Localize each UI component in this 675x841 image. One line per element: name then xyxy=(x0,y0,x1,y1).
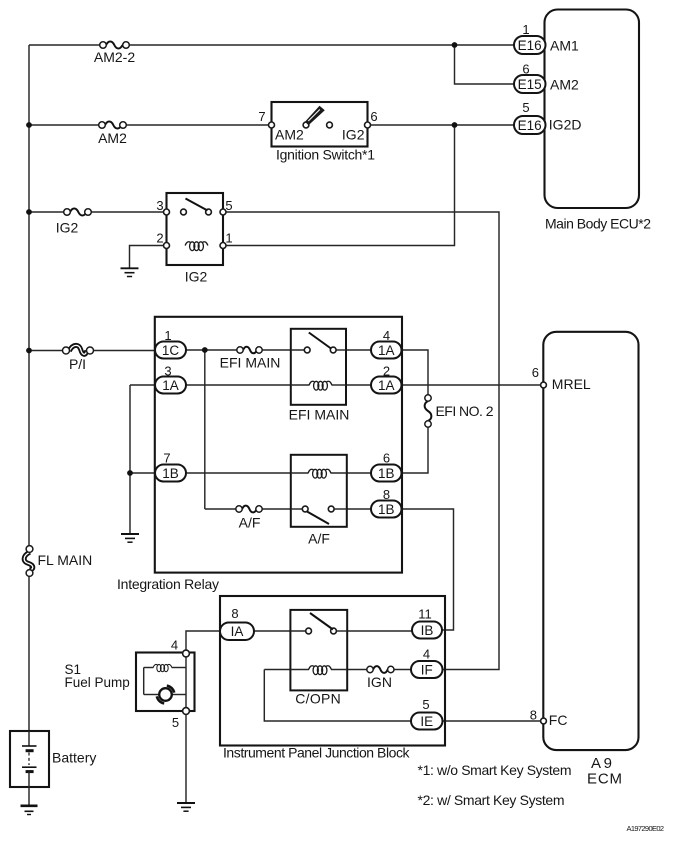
svg-text:1B: 1B xyxy=(162,466,179,481)
svg-text:5: 5 xyxy=(172,715,179,730)
svg-text:IG2: IG2 xyxy=(342,127,365,143)
svg-text:Ignition Switch*1: Ignition Switch*1 xyxy=(276,147,375,163)
svg-text:AM2: AM2 xyxy=(275,127,304,143)
svg-text:Main Body ECU*2: Main Body ECU*2 xyxy=(545,216,651,232)
svg-text:2: 2 xyxy=(156,231,163,246)
svg-text:1: 1 xyxy=(164,328,171,343)
svg-text:3: 3 xyxy=(164,364,171,379)
svg-text:P/I: P/I xyxy=(69,356,86,372)
svg-text:1B: 1B xyxy=(378,502,395,517)
svg-text:EFI NO. 2: EFI NO. 2 xyxy=(436,403,494,419)
svg-text:E15: E15 xyxy=(518,77,542,92)
svg-text:ECM: ECM xyxy=(587,771,622,788)
svg-text:1B: 1B xyxy=(378,466,395,481)
svg-text:IF: IF xyxy=(421,663,433,678)
svg-text:3: 3 xyxy=(156,198,163,213)
svg-text:6: 6 xyxy=(532,365,539,380)
svg-text:EFI MAIN: EFI MAIN xyxy=(220,355,281,371)
svg-text:A/F: A/F xyxy=(239,515,261,531)
svg-text:1C: 1C xyxy=(162,343,180,358)
svg-text:IB: IB xyxy=(421,623,434,638)
svg-text:5: 5 xyxy=(522,100,529,115)
svg-text:IG2D: IG2D xyxy=(549,117,582,133)
svg-text:5: 5 xyxy=(225,198,232,213)
svg-text:1A: 1A xyxy=(378,343,395,358)
svg-text:A/F: A/F xyxy=(308,531,330,547)
svg-text:6: 6 xyxy=(522,62,529,77)
svg-text:C/OPN: C/OPN xyxy=(295,691,341,707)
svg-text:6: 6 xyxy=(383,451,390,466)
svg-text:FL MAIN: FL MAIN xyxy=(38,552,93,568)
svg-text:4: 4 xyxy=(423,647,430,662)
svg-text:1A: 1A xyxy=(162,378,179,393)
svg-text:8: 8 xyxy=(383,487,390,502)
svg-text:AM2: AM2 xyxy=(98,130,127,146)
svg-text:A197290E02: A197290E02 xyxy=(627,824,665,833)
svg-text:MREL: MREL xyxy=(552,376,591,392)
svg-text:1: 1 xyxy=(522,22,529,37)
svg-text:E16: E16 xyxy=(518,38,542,53)
svg-text:AM1: AM1 xyxy=(550,38,579,54)
svg-text:6: 6 xyxy=(370,109,377,124)
svg-text:AM2-2: AM2-2 xyxy=(94,49,135,65)
svg-text:*1: w/o Smart Key System: *1: w/o Smart Key System xyxy=(418,762,572,778)
svg-text:4: 4 xyxy=(171,638,178,653)
svg-text:Battery: Battery xyxy=(52,750,96,766)
svg-text:AM2: AM2 xyxy=(550,77,579,93)
svg-text:FC: FC xyxy=(549,712,568,728)
svg-text:7: 7 xyxy=(258,109,265,124)
svg-text:8: 8 xyxy=(530,708,537,723)
svg-text:E16: E16 xyxy=(518,118,542,133)
svg-text:Integration Relay: Integration Relay xyxy=(117,576,219,592)
svg-text:IA: IA xyxy=(231,624,244,639)
svg-text:IE: IE xyxy=(420,714,433,729)
svg-text:Instrument Panel Junction Bloc: Instrument Panel Junction Block xyxy=(223,745,411,761)
svg-text:2: 2 xyxy=(383,364,390,379)
svg-text:EFI MAIN: EFI MAIN xyxy=(289,407,350,423)
svg-text:Fuel Pump: Fuel Pump xyxy=(65,675,130,690)
svg-text:IG2: IG2 xyxy=(56,220,79,236)
svg-text:IG2: IG2 xyxy=(185,269,208,285)
svg-text:IGN: IGN xyxy=(367,674,392,690)
svg-text:11: 11 xyxy=(418,607,432,622)
svg-text:*2: w/ Smart Key System: *2: w/ Smart Key System xyxy=(418,792,565,808)
svg-text:1A: 1A xyxy=(378,378,395,393)
svg-text:5: 5 xyxy=(422,697,429,712)
svg-text:8: 8 xyxy=(231,606,238,621)
svg-text:4: 4 xyxy=(383,328,390,343)
svg-text:1: 1 xyxy=(225,231,232,246)
svg-text:7: 7 xyxy=(163,451,170,466)
